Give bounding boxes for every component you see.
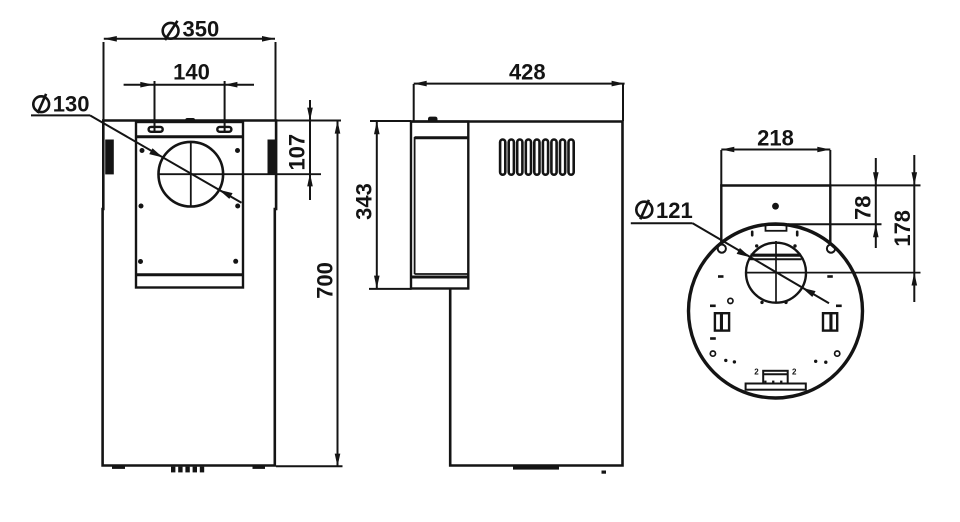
small rings bbox=[710, 298, 840, 356]
dim 350 right extension bbox=[275, 42, 277, 121]
tab top extension line bbox=[788, 223, 882, 225]
dim 343 bottom extension bbox=[369, 288, 412, 290]
d130 arrow lower bbox=[219, 190, 233, 199]
clamp left bbox=[715, 313, 729, 330]
plate bottom fold line bbox=[136, 273, 243, 276]
side plate top bump bbox=[428, 117, 438, 122]
dim 140 right arrow bbox=[224, 82, 237, 88]
svg-text:2: 2 bbox=[754, 368, 759, 377]
dim 78 top arrow bbox=[873, 172, 879, 185]
dim 218 right extension bbox=[829, 150, 831, 186]
top plate outline bbox=[721, 186, 830, 249]
dim 350 dimension line bbox=[104, 38, 275, 40]
svg-text:121: 121 bbox=[656, 198, 693, 223]
dim 343 top extension bbox=[370, 120, 411, 122]
d121 arrow lower bbox=[802, 288, 816, 297]
side plate top fold bbox=[415, 136, 469, 139]
bottom tabs bbox=[171, 467, 204, 473]
clamp right bbox=[823, 313, 837, 330]
ring hole right bbox=[827, 245, 835, 253]
dim 428 dimension line bbox=[414, 83, 625, 85]
plate slot left bbox=[149, 127, 163, 132]
dim 428 left extension bbox=[413, 84, 415, 121]
outlet circle d121 bbox=[746, 243, 806, 303]
d130 leader underline bbox=[31, 114, 90, 116]
svg-text:428: 428 bbox=[509, 60, 546, 85]
svg-text:2: 2 bbox=[792, 367, 797, 376]
d121 arrow upper bbox=[737, 248, 751, 257]
outlet horizontal centerline + 178 extension bbox=[746, 272, 921, 274]
terminal wide box bbox=[746, 384, 806, 390]
exhaust hole circle d130 bbox=[159, 142, 224, 207]
side body outline bbox=[411, 122, 623, 466]
outlet vertical centerline bbox=[775, 241, 777, 304]
dim 107 top extension bbox=[276, 120, 341, 122]
d121 leader diagonal bbox=[693, 223, 829, 303]
side plate lower step line bbox=[415, 273, 469, 275]
dim 350 right arrow bbox=[262, 36, 275, 42]
dim 343 line bbox=[376, 121, 378, 288]
dim 178 bottom arrow bbox=[912, 273, 918, 286]
top tab rect bbox=[766, 225, 787, 231]
right side vent black patch bbox=[268, 140, 276, 174]
side plate outline bbox=[411, 122, 468, 289]
dim 700 bottom extension bbox=[276, 465, 343, 467]
mounting plate front bbox=[136, 122, 243, 288]
dim 178 top arrow bbox=[912, 172, 918, 185]
plate slot right bbox=[217, 127, 231, 132]
side plate inner edge bbox=[414, 137, 416, 274]
plate top extension line bbox=[830, 184, 920, 186]
body circle d350 bbox=[689, 224, 863, 398]
dim 343 top arrow bbox=[374, 121, 380, 134]
top plate hole bbox=[772, 203, 779, 210]
circle vertical centerline bbox=[190, 142, 192, 207]
dim 107 top arrow bbox=[307, 108, 313, 121]
scattered holes bbox=[710, 244, 842, 364]
dim 218 left arrow bbox=[721, 147, 734, 153]
side bottom dark mark bbox=[513, 466, 559, 470]
dim 178 line bbox=[913, 155, 915, 302]
plate top notch bbox=[185, 118, 195, 122]
dim 140 dimension line bbox=[124, 84, 254, 86]
dim 140 left arrow bbox=[140, 82, 153, 88]
dim 700 line bbox=[337, 121, 339, 467]
dim 107 line bbox=[309, 100, 311, 200]
circle horizontal centerline + 107 extension bbox=[159, 173, 322, 175]
bottom left foot mark bbox=[112, 467, 125, 469]
svg-text:178: 178 bbox=[890, 210, 915, 247]
damper thin line bbox=[750, 258, 802, 260]
dim 428 right extension bbox=[622, 84, 624, 121]
dim 350 left extension bbox=[103, 42, 105, 121]
dim 78 line bbox=[875, 158, 877, 248]
dim 107 bottom arrow bbox=[307, 173, 313, 186]
dim 700 top arrow bbox=[335, 121, 341, 134]
label d121 symbol bbox=[636, 200, 652, 219]
dim 350 left arrow bbox=[104, 36, 117, 42]
tick left bbox=[751, 231, 754, 237]
label d350 symbol bbox=[163, 21, 179, 40]
svg-text:140: 140 bbox=[173, 59, 210, 84]
side plate bottom fold bbox=[411, 276, 468, 279]
svg-text:78: 78 bbox=[851, 196, 876, 220]
left side vent black patch bbox=[105, 140, 114, 175]
svg-text:700: 700 bbox=[312, 262, 337, 299]
dim 428 right arrow bbox=[612, 81, 625, 87]
dim 428 left arrow bbox=[414, 81, 427, 87]
vent slots bbox=[500, 140, 574, 175]
dim 700 bottom arrow bbox=[335, 454, 341, 467]
front body outline bbox=[103, 121, 277, 466]
svg-text:350: 350 bbox=[183, 16, 220, 41]
tick right bbox=[796, 231, 799, 237]
side bottom tiny tick bbox=[602, 471, 607, 474]
dim 140 left extension bbox=[154, 81, 156, 132]
svg-text:107: 107 bbox=[284, 134, 309, 171]
dim 218 left extension bbox=[720, 150, 722, 186]
dim 343 bottom arrow bbox=[374, 276, 380, 289]
ring hole left bbox=[718, 245, 726, 253]
svg-text:343: 343 bbox=[352, 183, 377, 220]
dim 78 bottom arrow bbox=[873, 224, 879, 237]
d130 arrow upper bbox=[149, 148, 163, 157]
dim 140 right extension bbox=[224, 81, 226, 132]
damper thick band bbox=[751, 254, 802, 257]
d121 leader underline bbox=[631, 222, 693, 224]
terminal small box bbox=[763, 371, 788, 384]
svg-text:218: 218 bbox=[757, 125, 794, 150]
bottom right foot mark bbox=[253, 467, 266, 469]
plate screw holes bbox=[138, 148, 240, 264]
svg-text:130: 130 bbox=[53, 92, 90, 117]
d130 leader diagonal bbox=[90, 115, 242, 202]
plate top fold line bbox=[136, 135, 243, 138]
dim 218 dimension line bbox=[721, 149, 830, 151]
label d130 symbol bbox=[33, 94, 49, 113]
dim 218 right arrow bbox=[817, 147, 830, 153]
